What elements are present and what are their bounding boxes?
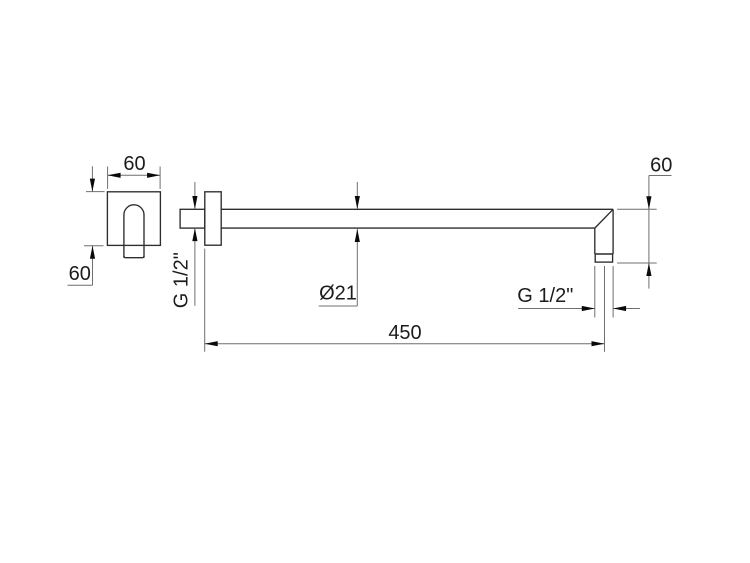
svg-text:60: 60 bbox=[123, 153, 145, 175]
svg-text:60: 60 bbox=[650, 154, 672, 176]
svg-text:G 1/2": G 1/2" bbox=[517, 285, 573, 307]
svg-text:Ø21: Ø21 bbox=[319, 283, 357, 305]
svg-text:450: 450 bbox=[388, 322, 421, 344]
svg-text:G 1/2": G 1/2" bbox=[170, 252, 192, 308]
svg-text:60: 60 bbox=[69, 263, 91, 285]
